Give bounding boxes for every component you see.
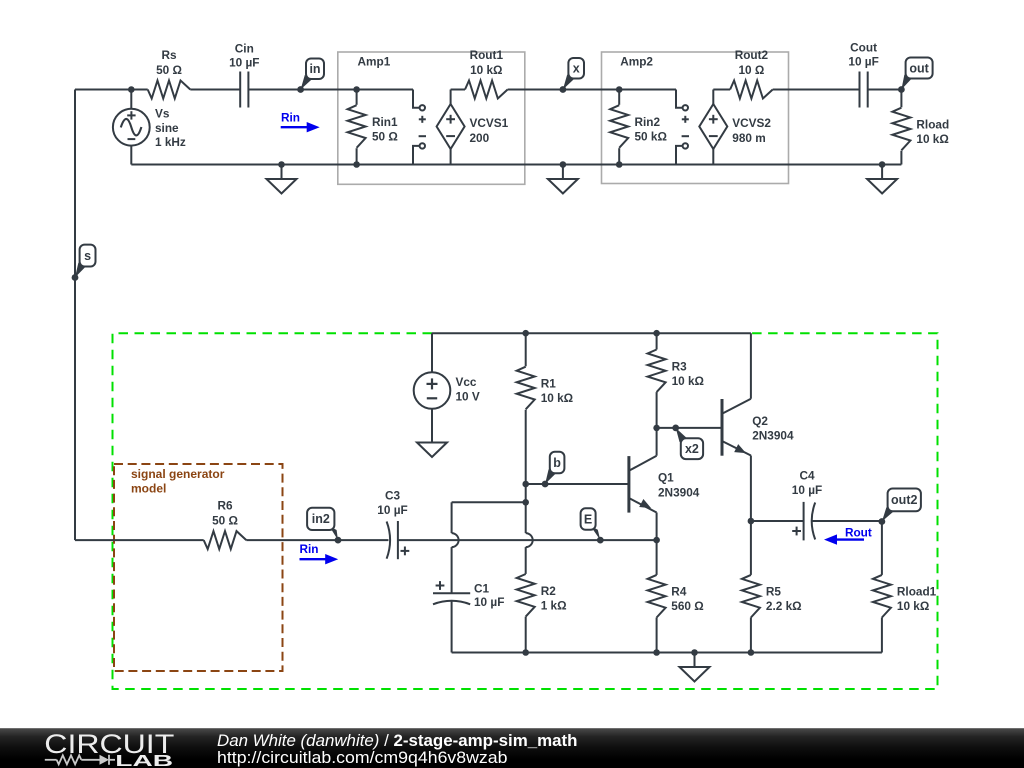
junction <box>879 161 886 168</box>
junction <box>522 481 529 488</box>
voltage source Vs <box>113 90 186 165</box>
svg-text:VCVS1: VCVS1 <box>470 116 509 130</box>
dependent source VCVS1 <box>437 90 509 165</box>
svg-text:E: E <box>584 512 592 526</box>
capacitor C4 polarized <box>792 468 822 540</box>
svg-text:1 kHz: 1 kHz <box>155 135 186 149</box>
VCVS2 input + terminal <box>676 90 689 123</box>
svg-text:Rload: Rload <box>916 118 949 132</box>
svg-text:200: 200 <box>470 131 490 145</box>
Rout annotation arrow <box>824 526 872 545</box>
svg-text:1 kΩ: 1 kΩ <box>541 598 567 612</box>
Rin annotation arrow <box>281 111 320 133</box>
VCVS1 input - terminal <box>413 136 426 164</box>
svg-text:Rin: Rin <box>299 542 318 556</box>
resistor Rload <box>892 90 949 165</box>
svg-text:R5: R5 <box>766 585 782 599</box>
svg-text:Rin: Rin <box>281 111 300 125</box>
wire node b horizontal <box>526 483 629 485</box>
svg-text:Dan White (danwhite) / 2-stage: Dan White (danwhite) / 2-stage-amp-sim_m… <box>217 731 578 750</box>
svg-text:10 Ω: 10 Ω <box>738 63 764 77</box>
svg-text:Rout2: Rout2 <box>735 48 769 62</box>
green dashed amplifier boundary box <box>113 333 938 689</box>
amplifier block box Amp1 <box>338 52 525 184</box>
junction <box>748 649 755 656</box>
junction <box>653 425 660 432</box>
svg-text:560 Ω: 560 Ω <box>671 599 703 613</box>
resistor R2 <box>517 574 567 653</box>
capacitor Cout <box>848 41 878 108</box>
wire <box>812 520 882 522</box>
resistor Rs <box>148 48 191 99</box>
svg-text:980 m: 980 m <box>732 131 765 145</box>
node in <box>297 59 324 93</box>
wire <box>713 89 730 91</box>
svg-text:10 µF: 10 µF <box>474 595 504 609</box>
junction <box>278 161 285 168</box>
svg-text:R4: R4 <box>671 585 687 599</box>
wire bottom rail <box>452 652 882 654</box>
svg-text:sine: sine <box>155 121 179 135</box>
junction <box>691 649 698 656</box>
capacitor Cin <box>229 42 259 108</box>
svg-text:50 Ω: 50 Ω <box>156 63 182 77</box>
svg-text:10 µF: 10 µF <box>792 483 822 497</box>
CircuitLab logo <box>44 728 174 768</box>
svg-text:10 µF: 10 µF <box>229 56 259 70</box>
footer title text <box>217 731 578 767</box>
svg-text:in: in <box>309 62 320 76</box>
capacitor C1 polarized <box>433 502 504 652</box>
junction <box>653 649 660 656</box>
power supply Vcc <box>414 333 480 442</box>
wire <box>751 520 804 522</box>
svg-text:Rs: Rs <box>161 48 177 62</box>
junction <box>522 499 529 506</box>
svg-text:R1: R1 <box>541 377 557 391</box>
svg-text:Rout1: Rout1 <box>470 48 504 62</box>
svg-text:R2: R2 <box>541 584 557 598</box>
wire <box>75 89 148 91</box>
svg-text:C1: C1 <box>474 582 490 596</box>
wire <box>868 89 902 91</box>
svg-text:Q1: Q1 <box>658 471 674 485</box>
wire <box>75 539 204 541</box>
svg-text:VCVS2: VCVS2 <box>732 116 771 130</box>
svg-text:http://circuitlab.com/cm9q4h6v: http://circuitlab.com/cm9q4h6v8wzab <box>217 749 508 767</box>
wire with hop over E wire <box>526 484 533 574</box>
svg-text:10 µF: 10 µF <box>848 55 878 69</box>
node s <box>72 245 96 281</box>
wire node x2 horizontal <box>657 427 722 429</box>
svg-text:Rout: Rout <box>845 526 872 540</box>
resistor Rin1 <box>348 86 398 168</box>
svg-text:Amp1: Amp1 <box>358 55 391 69</box>
svg-text:signal generator: signal generator <box>131 467 225 481</box>
node out2 <box>879 489 921 525</box>
resistor Rout1 <box>465 48 508 99</box>
svg-text:R3: R3 <box>672 359 688 373</box>
svg-text:2.2 kΩ: 2.2 kΩ <box>766 599 802 613</box>
ground <box>867 165 897 194</box>
svg-text:C4: C4 <box>799 468 815 482</box>
svg-text:out2: out2 <box>891 493 917 507</box>
svg-text:Rin2: Rin2 <box>635 115 661 129</box>
resistor R1 <box>517 333 573 484</box>
svg-text:10 µF: 10 µF <box>377 503 407 517</box>
svg-text:s: s <box>84 249 91 263</box>
node x2 <box>672 425 703 460</box>
svg-text:out: out <box>909 61 929 75</box>
svg-text:10 kΩ: 10 kΩ <box>470 63 502 77</box>
node b <box>542 452 565 488</box>
transistor Q1 <box>629 428 700 540</box>
ground <box>680 653 710 682</box>
dependent source VCVS2 <box>699 90 771 165</box>
wire node E horizontal <box>398 539 657 541</box>
svg-text:2N3904: 2N3904 <box>752 428 794 442</box>
wire <box>248 89 413 91</box>
junction <box>128 86 135 93</box>
svg-text:2N3904: 2N3904 <box>658 485 700 499</box>
resistor R4 <box>648 540 704 652</box>
wire <box>773 89 860 91</box>
svg-text:Rin1: Rin1 <box>372 115 398 129</box>
wire node s vertical <box>74 90 76 541</box>
svg-text:model: model <box>131 482 166 496</box>
svg-text:10 kΩ: 10 kΩ <box>897 599 929 613</box>
VCVS2 input - terminal <box>676 136 689 164</box>
capacitor C3 polarized <box>377 489 409 560</box>
svg-text:b: b <box>553 456 561 470</box>
resistor Rload1 <box>873 522 937 653</box>
svg-text:Rload1: Rload1 <box>897 585 937 599</box>
wire <box>452 501 526 503</box>
wire top rail <box>432 332 751 334</box>
wire <box>246 539 388 541</box>
junction <box>653 330 660 337</box>
svg-text:Cout: Cout <box>850 41 877 55</box>
junction <box>653 537 660 544</box>
ground <box>548 165 578 194</box>
svg-text:R6: R6 <box>217 499 233 513</box>
ground <box>267 165 297 194</box>
svg-text:x2: x2 <box>685 442 699 456</box>
junction <box>748 518 755 525</box>
transistor Q2 <box>722 333 794 521</box>
wire <box>190 89 240 91</box>
svg-text:Vcc: Vcc <box>456 375 477 389</box>
junction <box>522 649 529 656</box>
svg-text:in2: in2 <box>312 512 330 526</box>
junction <box>522 330 529 337</box>
junction <box>560 161 567 168</box>
brown dashed signal generator model box <box>114 464 283 671</box>
Rin annotation arrow 2 <box>299 542 338 564</box>
svg-text:50 Ω: 50 Ω <box>212 514 238 528</box>
node E <box>581 508 604 543</box>
svg-text:Cin: Cin <box>235 42 254 56</box>
svg-text:Q2: Q2 <box>752 414 768 428</box>
amplifier block box Amp2 <box>602 52 789 184</box>
wire <box>508 89 676 91</box>
wire <box>451 89 465 91</box>
svg-text:Vs: Vs <box>155 107 170 121</box>
node x <box>560 58 585 93</box>
svg-text:C3: C3 <box>385 489 401 503</box>
ground <box>417 428 447 457</box>
resistor R6 <box>204 499 247 549</box>
svg-text:x: x <box>573 62 580 76</box>
svg-text:10 V: 10 V <box>456 389 480 403</box>
wire <box>131 164 901 166</box>
svg-text:50 Ω: 50 Ω <box>372 130 398 144</box>
VCVS1 input + terminal <box>413 90 426 123</box>
node out <box>898 58 933 93</box>
resistor Rin2 <box>610 86 667 168</box>
svg-text:50 kΩ: 50 kΩ <box>635 130 667 144</box>
node in2 <box>307 508 341 544</box>
svg-text:LAB: LAB <box>115 753 173 768</box>
resistor Rout2 <box>730 48 773 99</box>
svg-text:Amp2: Amp2 <box>620 55 653 69</box>
resistor R5 <box>742 521 802 653</box>
svg-text:10 kΩ: 10 kΩ <box>916 132 948 146</box>
svg-text:10 kΩ: 10 kΩ <box>541 391 573 405</box>
resistor R3 <box>648 333 704 428</box>
svg-text:10 kΩ: 10 kΩ <box>672 374 704 388</box>
